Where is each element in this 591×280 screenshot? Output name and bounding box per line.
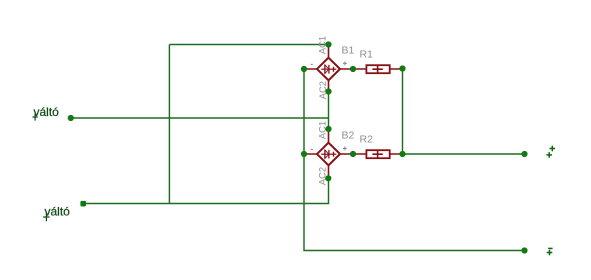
junction B2 AC2 [325, 175, 331, 181]
net label minus terminal [548, 247, 552, 249]
junction B1 minus [301, 66, 307, 72]
pin label plus of B1 [343, 62, 347, 66]
junction B1 plus [350, 66, 356, 72]
origin cross of plus terminal label [546, 152, 552, 158]
wire bottom valto horizontal net with corner up to B2 AC2 [83, 178, 329, 203]
resistor R2 [353, 150, 403, 158]
svg-text:AC2: AC2 [317, 167, 328, 185]
junction R2 right [399, 151, 405, 157]
junction bottom valto start [80, 201, 86, 207]
junction B2 minus [301, 151, 307, 157]
pin label minus of B2 [311, 148, 313, 150]
svg-text:B2: B2 [342, 130, 355, 142]
wire right vertical net R1 right to R2 right [402, 69, 404, 155]
wire left vertical net [168, 45, 170, 204]
resistor R1 [353, 65, 403, 73]
origin cross of valto top label [33, 113, 38, 120]
pin label minus of B1 [311, 63, 313, 65]
svg-text:B1: B1 [342, 45, 355, 57]
origin cross of minus terminal label [547, 250, 553, 256]
svg-text:R1: R1 [360, 49, 374, 61]
junction top valto start [68, 115, 74, 121]
wire top horizontal net from left vertical to B1 AC1 [169, 44, 328, 46]
svg-text:R2: R2 [360, 134, 374, 146]
origin cross of valto bottom label [43, 213, 49, 221]
net label plus terminal [550, 146, 556, 152]
wire minus vertical net from B1 minus down and right to minus terminal [304, 69, 525, 251]
bridge rectifier B1 [304, 45, 353, 92]
junction plus terminal [521, 151, 527, 157]
junction B1 AC2 [325, 88, 331, 94]
junction B1 AC1 [325, 41, 331, 47]
pin label plus of B2 [343, 147, 347, 151]
wire plus output net to plus terminal [403, 153, 525, 155]
junction R1 right [399, 65, 405, 71]
bridge rectifier B2 [304, 129, 353, 178]
junction minus terminal [521, 247, 527, 253]
wire top valto horizontal net [71, 117, 329, 119]
junction B2 plus [350, 151, 356, 157]
wire middle vertical net B1 AC2 to B2 AC1 [328, 92, 330, 130]
junction B2 AC1 [325, 126, 331, 132]
